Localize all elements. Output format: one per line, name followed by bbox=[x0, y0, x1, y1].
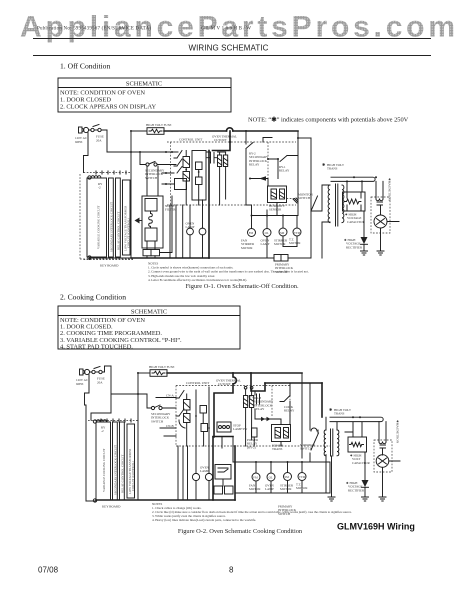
diode pair on wire bbox=[255, 417, 275, 421]
junction dot (131,152) bbox=[130, 151, 132, 153]
junction dots motor feed bbox=[251, 215, 253, 217]
primary interlock switch assembly bbox=[214, 465, 233, 495]
magnetron antenna wire bbox=[377, 219, 400, 225]
power cord plug P1 bbox=[79, 127, 89, 133]
junction dot (251,373) bbox=[250, 372, 252, 374]
control unit drop wires 2 bbox=[178, 446, 188, 500]
dashed connector row y172.5 bbox=[84, 172, 132, 174]
svg-text:VARIABLE COOKING CIRCUIT: VARIABLE COOKING CIRCUIT bbox=[102, 448, 106, 492]
svg-text:✱MAGNETRON: ✱MAGNETRON bbox=[388, 178, 392, 202]
bottom terminal circle bbox=[93, 499, 96, 502]
fuse F1 20A bbox=[91, 125, 101, 132]
secondary interlock switch S2 bbox=[147, 394, 176, 410]
svg-text:1. DOOR CLOSED: 1. DOOR CLOSED bbox=[60, 97, 111, 104]
fan motor M1-2 bbox=[252, 462, 260, 493]
svg-text:TTM: TTM bbox=[294, 231, 301, 235]
low voltage transformer T2 hatched bbox=[244, 389, 254, 446]
small relay coil rect bbox=[247, 428, 259, 449]
svg-text:WIRING SCHEMATIC: WIRING SCHEMATIC bbox=[188, 44, 268, 53]
svg-text:NOTE: CONDITION OF OVEN: NOTE: CONDITION OF OVEN bbox=[60, 90, 145, 97]
wire hot up and over bbox=[105, 366, 112, 372]
label high voltage rectifier bbox=[344, 238, 363, 249]
junction dots control unit 2 bbox=[195, 415, 197, 417]
wire h y394 to trunk bbox=[111, 393, 147, 395]
magnetron 2 circle bbox=[376, 455, 389, 468]
svg-text:Publication No: 5995439567 (EN: Publication No: 5995439567 (EN/SERVICE D… bbox=[37, 27, 151, 32]
svg-text:SENSOR: SENSOR bbox=[269, 208, 282, 212]
board rect 3 bbox=[116, 178, 121, 257]
cap plates near LVT bbox=[257, 394, 260, 404]
svg-text:2. CLOCK APPEARS ON DISPLAY: 2. CLOCK APPEARS ON DISPLAY bbox=[60, 104, 157, 111]
board rect 2 bbox=[113, 422, 118, 500]
junction dots hairpin bbox=[353, 176, 355, 178]
svg-text:✱: ✱ bbox=[329, 407, 333, 412]
thick feed from rail into control unit bbox=[213, 131, 231, 151]
magnetron 2 dashed enclosure bbox=[374, 440, 392, 472]
svg-text:RELAY: RELAY bbox=[284, 409, 295, 413]
svg-text:-2: -2 bbox=[98, 186, 101, 190]
control panel board rect wide bbox=[87, 178, 107, 257]
svg-text:MOTOR: MOTOR bbox=[296, 486, 308, 490]
label secondary interlock relay bbox=[249, 152, 269, 167]
svg-text:CN-B: CN-B bbox=[166, 424, 174, 428]
wire trunk x131 bbox=[130, 131, 132, 258]
HVT2 connecting wires bbox=[326, 417, 337, 497]
thick bar left of motors bbox=[213, 437, 233, 463]
wire neutral stepped outline bbox=[84, 133, 89, 173]
junction dot (230,142) bbox=[229, 141, 231, 143]
humidity sensor box bbox=[268, 186, 287, 203]
terminal circle and coil at column top bbox=[93, 420, 106, 423]
ground symbol magnetron 2 bbox=[379, 497, 386, 501]
branch hop at x233 bbox=[214, 373, 236, 437]
magnetron cathode to ground bbox=[380, 228, 382, 251]
relay coil RY-1 bbox=[183, 157, 190, 168]
dashed outer panel edge bbox=[80, 174, 133, 259]
svg-text:LAMP: LAMP bbox=[265, 487, 274, 491]
extra CU input stubs bbox=[162, 167, 182, 185]
turntable motor M4 bbox=[293, 216, 301, 247]
label stirrer motor bbox=[274, 239, 288, 247]
power transformer box bbox=[272, 425, 291, 442]
relay contact arcs left bbox=[176, 391, 185, 429]
svg-text:RELAY CONTROL CIRCUIT: RELAY CONTROL CIRCUIT bbox=[117, 212, 121, 250]
right rail vertical x298 bbox=[297, 131, 299, 216]
bus right section bbox=[209, 211, 322, 258]
control unit drop wires bbox=[170, 205, 183, 258]
right vertical x322 thick bbox=[321, 383, 323, 417]
HVT label bbox=[322, 162, 344, 171]
label stirrer motor 2 bbox=[280, 484, 294, 492]
control unit dashed outline bbox=[167, 142, 296, 205]
relay contact arcs left bbox=[174, 151, 182, 167]
svg-text:Figure O-1. Oven Schematic-Off: Figure O-1. Oven Schematic-Off Condition… bbox=[185, 283, 299, 290]
oven lamp circles left bbox=[192, 466, 212, 481]
svg-text:VARIABLE COOKING CIRCUIT: VARIABLE COOKING CIRCUIT bbox=[97, 205, 101, 249]
svg-text:4. START PAD TOUCHED.: 4. START PAD TOUCHED. bbox=[60, 343, 133, 350]
motor feed line y462 bbox=[233, 461, 330, 463]
wires mid cluster bbox=[254, 391, 290, 446]
label humidity sensor bbox=[269, 204, 286, 212]
wire cap to diode bbox=[363, 211, 365, 237]
board rect 4 bbox=[127, 424, 135, 498]
connector ticks bbox=[96, 171, 126, 174]
svg-text:TRANS: TRANS bbox=[272, 447, 283, 451]
probe ground mark bbox=[293, 198, 298, 203]
svg-text:SWITCH: SWITCH bbox=[300, 447, 313, 451]
svg-text:OL: OL bbox=[269, 476, 273, 480]
wire trunk x138 bbox=[137, 373, 139, 500]
tiny stub labels bbox=[166, 394, 174, 429]
svg-text:CAPACITOR: CAPACITOR bbox=[347, 220, 366, 224]
junction dot (138,373) bbox=[137, 372, 139, 374]
svg-text:CAPACITOR: CAPACITOR bbox=[352, 461, 371, 465]
svg-text:SM: SM bbox=[285, 475, 290, 479]
svg-text:SCHEMATIC: SCHEMATIC bbox=[126, 81, 162, 88]
svg-text:SM: SM bbox=[280, 231, 285, 235]
svg-text:2. Cooking Condition: 2. Cooking Condition bbox=[60, 293, 126, 302]
svg-text:RELAY: RELAY bbox=[249, 163, 260, 167]
wire h y138 to x311 bbox=[298, 137, 311, 139]
svg-text:✱: ✱ bbox=[322, 162, 326, 167]
svg-text:CONTROL UNIT: CONTROL UNIT bbox=[179, 138, 202, 142]
svg-text:-2: -2 bbox=[101, 429, 104, 433]
svg-text:FILTER: FILTER bbox=[165, 208, 176, 212]
connector dots y152 bbox=[165, 151, 167, 153]
power cord plug P1 bbox=[80, 369, 90, 375]
board rect 4 bbox=[123, 180, 131, 255]
junction dot (233,373) bbox=[232, 372, 234, 374]
label fan motor 2 bbox=[249, 484, 261, 492]
wire thick x213 bbox=[212, 437, 214, 500]
junction dot (138,394) bbox=[137, 393, 139, 395]
svg-text:CONTROL UNIT: CONTROL UNIT bbox=[186, 381, 209, 385]
svg-text:TTM: TTM bbox=[299, 475, 306, 479]
high voltage fuse box bbox=[147, 128, 164, 135]
label FUSE 20A bbox=[96, 135, 104, 143]
relay coil RY-3 bbox=[184, 414, 191, 423]
connector ticks bbox=[101, 419, 131, 422]
wire thick x235 bbox=[234, 446, 236, 500]
HVT2 label bbox=[329, 407, 351, 416]
wire rail to HV fuse bbox=[138, 372, 150, 374]
X2 box bbox=[200, 406, 207, 414]
dashed CU right edge x268 bbox=[267, 142, 269, 186]
diode arrow on wire bbox=[249, 176, 268, 186]
dashed connector row y420 bbox=[88, 420, 139, 422]
high voltage rectifier diode D1-2 bbox=[362, 480, 369, 497]
wire rail to HV fuse bbox=[131, 130, 147, 132]
svg-text:CN-A: CN-A bbox=[166, 394, 174, 398]
wire feed from thermo box bbox=[267, 203, 277, 216]
oven lamp M2 bbox=[263, 216, 271, 258]
label oven lamp 2 bbox=[265, 484, 275, 492]
label 120V AC 60HZ bbox=[75, 136, 87, 144]
X1 box bbox=[196, 177, 203, 185]
relay coil RY-2 bbox=[183, 172, 190, 182]
wire plug to fuse to corner bbox=[89, 129, 107, 131]
svg-text:20A: 20A bbox=[97, 381, 103, 385]
lamp circles in control unit bbox=[186, 222, 206, 235]
X1 box bbox=[201, 424, 208, 432]
monitor switch S4 bbox=[298, 193, 318, 212]
stirrer motor M3-2 bbox=[284, 462, 292, 493]
primary interlock switch box on bus bbox=[274, 255, 288, 262]
high voltage transformer T1 bbox=[328, 184, 344, 226]
svg-text:TRANS: TRANS bbox=[334, 412, 345, 416]
right vertical x302 bbox=[301, 373, 303, 458]
noise filter terminal blocks bbox=[143, 250, 160, 256]
schematic note box 1 bbox=[58, 78, 231, 112]
dashed probe stub bbox=[287, 198, 296, 200]
svg-text:RELAY CONTROL CIRCUIT: RELAY CONTROL CIRCUIT bbox=[121, 455, 125, 493]
svg-text:MOTOR: MOTOR bbox=[249, 487, 261, 491]
svg-text:CIRCUIT (CONTROL): CIRCUIT (CONTROL) bbox=[131, 461, 135, 491]
stirrer motor M3 bbox=[279, 216, 287, 247]
cook relay contact bbox=[280, 383, 295, 413]
magnetron V1 dashed enclosure bbox=[371, 197, 390, 233]
magnetron 2 antenna bbox=[379, 458, 401, 464]
filament hairpin loop bbox=[331, 177, 375, 181]
control panel board rect wide bbox=[96, 422, 111, 500]
heavy drop x209 bbox=[208, 151, 210, 259]
label high voltage rectifier 2 bbox=[346, 481, 365, 492]
notes list 1 bbox=[148, 262, 309, 282]
svg-text:SWITCH: SWITCH bbox=[298, 196, 311, 200]
turntable motor M4-2 bbox=[298, 462, 306, 493]
svg-text:60HZ: 60HZ bbox=[75, 140, 82, 144]
svg-text:MOTOR: MOTOR bbox=[241, 246, 253, 250]
wire from switch line down to noise filter bbox=[147, 166, 158, 196]
svg-text:1. Off Condition: 1. Off Condition bbox=[60, 62, 110, 71]
magnetron circle bbox=[374, 215, 387, 228]
svg-text:SWITCH: SWITCH bbox=[151, 419, 164, 423]
secondary interlock relay contact RY-2 bbox=[246, 142, 253, 216]
label OVEN THERMAL CUTOUT bbox=[212, 135, 237, 143]
oven thermal cutout hump bbox=[227, 128, 233, 131]
svg-text:LAMP SW: LAMP SW bbox=[233, 427, 247, 431]
bottom dashed connector bbox=[84, 259, 134, 261]
HV capacitor box 2 with bleeder bbox=[345, 422, 367, 452]
label primary interlock switch bbox=[275, 263, 294, 274]
magnetron 2 cathode down bbox=[382, 467, 384, 497]
wires noise filter to bus bbox=[147, 196, 172, 258]
svg-text:SECONDARY INTERLOCK CIRCUIT: SECONDARY INTERLOCK CIRCUIT bbox=[110, 202, 114, 252]
svg-text:LAMP: LAMP bbox=[261, 242, 270, 246]
relay RY-1 contact bbox=[267, 156, 298, 179]
wire plug to fuse bbox=[90, 371, 105, 373]
wires inside control unit bbox=[187, 387, 209, 446]
junction dot (298,138) bbox=[297, 137, 299, 139]
wire hot down x107 bbox=[106, 130, 108, 152]
noise filter assembly bbox=[142, 196, 163, 248]
svg-text:RECTIFIER: RECTIFIER bbox=[348, 488, 365, 492]
bottom bus y258 left bbox=[90, 258, 132, 260]
notes list 2 bbox=[152, 502, 352, 523]
junction dots control unit bbox=[185, 169, 187, 171]
wire v x311 bbox=[310, 138, 312, 211]
connector circles on LVT feed bbox=[244, 386, 247, 389]
wire right edge down x111 bbox=[110, 366, 112, 413]
filament hairpin loop 2 bbox=[330, 417, 383, 421]
wire h y152 to trunk bbox=[107, 151, 178, 153]
svg-text:HIGH VOLT FUSE: HIGH VOLT FUSE bbox=[149, 365, 174, 369]
svg-text:FM: FM bbox=[253, 476, 258, 480]
label high voltage capacitor 2 bbox=[350, 454, 371, 465]
control unit dashed outline bbox=[176, 386, 330, 447]
relay box upper right bbox=[311, 428, 317, 431]
board rect 2 bbox=[109, 178, 114, 257]
wire monitor switch to hvt area bbox=[310, 430, 318, 462]
wire branch from rail x246 bbox=[245, 131, 247, 142]
svg-text:60HZ: 60HZ bbox=[76, 382, 83, 386]
svg-text:CIRCUIT (CONTROL): CIRCUIT (CONTROL) bbox=[127, 218, 131, 248]
junction dot (140,152) bbox=[139, 151, 141, 153]
label power trans bbox=[272, 444, 284, 452]
stub wire top y137 bbox=[263, 138, 272, 143]
svg-text:✱MAGNETRON: ✱MAGNETRON bbox=[396, 420, 400, 444]
wire neutral stepped outline bbox=[85, 375, 90, 501]
rail B thick y383 bbox=[265, 382, 322, 384]
label turntable motor 2 bbox=[296, 483, 308, 491]
label RY-2 bbox=[101, 426, 106, 434]
right vertical x310 bbox=[309, 383, 311, 430]
label secondary interlock switch bbox=[145, 169, 165, 180]
junction dot (131,131) bbox=[130, 130, 132, 132]
bottom bus y258 thick bbox=[131, 257, 209, 259]
svg-text:OL: OL bbox=[265, 231, 269, 235]
svg-text:07/08: 07/08 bbox=[38, 566, 59, 575]
label high voltage capacitor bbox=[345, 213, 366, 224]
svg-text:8: 8 bbox=[229, 566, 234, 575]
svg-text:NOTE: “✱” indicates components: NOTE: “✱” indicates components with pote… bbox=[248, 117, 409, 124]
label stop lamp switch bbox=[233, 424, 247, 432]
motor feed line y217 bbox=[252, 215, 299, 217]
wires into cap box bbox=[347, 181, 362, 192]
svg-text:MOTOR: MOTOR bbox=[280, 487, 292, 491]
U step feed at x251 bbox=[251, 373, 265, 391]
wire hairpin ends into filament bbox=[375, 176, 377, 178]
label relay RY-B bbox=[254, 396, 274, 411]
oven lamp M2-2 bbox=[267, 462, 275, 493]
connector box with circles bbox=[217, 422, 231, 432]
label secondary interlock switch bbox=[151, 412, 171, 423]
svg-text:HIGH VOLT FUSE: HIGH VOLT FUSE bbox=[146, 123, 171, 127]
ground symbol rectifier 2 bbox=[362, 497, 369, 501]
ground symbol left bbox=[361, 251, 368, 255]
junction dot (246,131) bbox=[245, 130, 247, 132]
label FUSE 20A bbox=[97, 377, 105, 385]
junction dots feed 2 bbox=[255, 461, 257, 463]
svg-text:4. Heavy (low) lines indicate: 4. Heavy (low) lines indicate lines(Load… bbox=[152, 518, 256, 523]
ground symbol magnetron bbox=[377, 251, 384, 255]
svg-text:Figure O-2. Oven Schematic Coo: Figure O-2. Oven Schematic Cooking Condi… bbox=[178, 528, 303, 535]
svg-text:SECONDARY INTERLOCK CIRCUIT: SECONDARY INTERLOCK CIRCUIT bbox=[114, 445, 118, 495]
board rect 3 bbox=[120, 422, 125, 500]
left stub wires into control unit bbox=[156, 398, 176, 437]
svg-text:LAMP: LAMP bbox=[200, 469, 209, 473]
magnetron 2 filament coil bbox=[379, 422, 386, 455]
HV capacitor box with bleeder resistor bbox=[343, 192, 366, 211]
low voltage transformer T2 hatched bbox=[218, 155, 228, 167]
svg-text:SCHEMATIC: SCHEMATIC bbox=[131, 309, 167, 316]
wires lamps bbox=[190, 200, 203, 258]
dashed drop x290 bbox=[289, 386, 291, 417]
terminal circle and coil at column top bbox=[88, 176, 101, 180]
svg-text:CUTOUT: CUTOUT bbox=[214, 138, 227, 142]
svg-text:4. Letter B conditions affecte: 4. Letter B conditions affected by oscil… bbox=[148, 278, 247, 282]
bottom bus 2 bbox=[96, 499, 235, 501]
transformer primary frame bbox=[192, 151, 206, 201]
HVT primary feed wires bbox=[311, 185, 330, 258]
bottom terminal circle bbox=[88, 256, 91, 259]
label oven lamp bbox=[261, 239, 271, 247]
high voltage rectifier diode D1 bbox=[361, 237, 368, 251]
magnetron filament coil bbox=[376, 181, 383, 215]
header rule top bbox=[33, 38, 431, 40]
wires lamps 2 bbox=[196, 446, 209, 500]
label oven thermal cutout 2 bbox=[216, 379, 241, 387]
secondary interlock switch S2 bbox=[140, 152, 176, 166]
label noise filter bbox=[165, 204, 176, 212]
svg-text:KEY BOARD: KEY BOARD bbox=[100, 264, 119, 268]
capacitor plates bbox=[207, 153, 217, 164]
ground symbol HVT2 bbox=[328, 497, 335, 501]
monitor switch S4 bbox=[300, 433, 319, 451]
svg-text:TRANS: TRANS bbox=[327, 167, 338, 171]
svg-text:RELAY: RELAY bbox=[279, 169, 290, 173]
wire joining stirrer and tt motor bbox=[283, 246, 297, 248]
svg-text:20A: 20A bbox=[96, 139, 102, 143]
rail continues thick bbox=[233, 130, 298, 132]
high voltage fuse box bbox=[150, 370, 167, 377]
svg-text:RECTIFIER: RECTIFIER bbox=[346, 245, 363, 249]
label primary interlock switch 2 bbox=[278, 505, 297, 516]
schematic note box 2 bbox=[58, 306, 240, 350]
fuse F1 20A bbox=[92, 367, 102, 374]
label fan motor block bbox=[241, 239, 255, 250]
varistor arrow at trunk bbox=[135, 218, 140, 224]
junction dots hairpin 2 bbox=[352, 416, 354, 418]
svg-text:KEY BOARD: KEY BOARD bbox=[102, 505, 121, 509]
main rail thick y131 bbox=[164, 130, 227, 132]
main rail thick y373 bbox=[167, 372, 302, 374]
wire cap2 bottom down bbox=[364, 452, 366, 480]
svg-text:GLMV169HB/W: GLMV169HB/W bbox=[201, 27, 251, 32]
svg-text:MOTOR: MOTOR bbox=[289, 241, 301, 245]
svg-text:MOTOR: MOTOR bbox=[274, 242, 286, 246]
relay coil RY-1 bbox=[184, 400, 191, 411]
X2 box bbox=[196, 162, 203, 170]
small input box bbox=[175, 179, 187, 190]
svg-text:FM: FM bbox=[249, 231, 254, 235]
high voltage transformer T1 bbox=[324, 429, 339, 456]
label 120V AC 60HZ bbox=[76, 378, 88, 386]
wire step to column bbox=[91, 413, 111, 420]
label turntable motor bbox=[289, 238, 301, 246]
bottom bus line left bbox=[86, 500, 96, 502]
wires inside control unit bbox=[186, 151, 225, 206]
label RY-2 bbox=[98, 182, 103, 190]
svg-text:RELAY: RELAY bbox=[254, 407, 265, 411]
svg-text:GLMV169H Wiring: GLMV169H Wiring bbox=[337, 522, 415, 532]
header rule bottom bbox=[33, 55, 431, 57]
fan motor M1 bbox=[248, 216, 256, 237]
bottom rail motors 2 bbox=[235, 462, 330, 493]
